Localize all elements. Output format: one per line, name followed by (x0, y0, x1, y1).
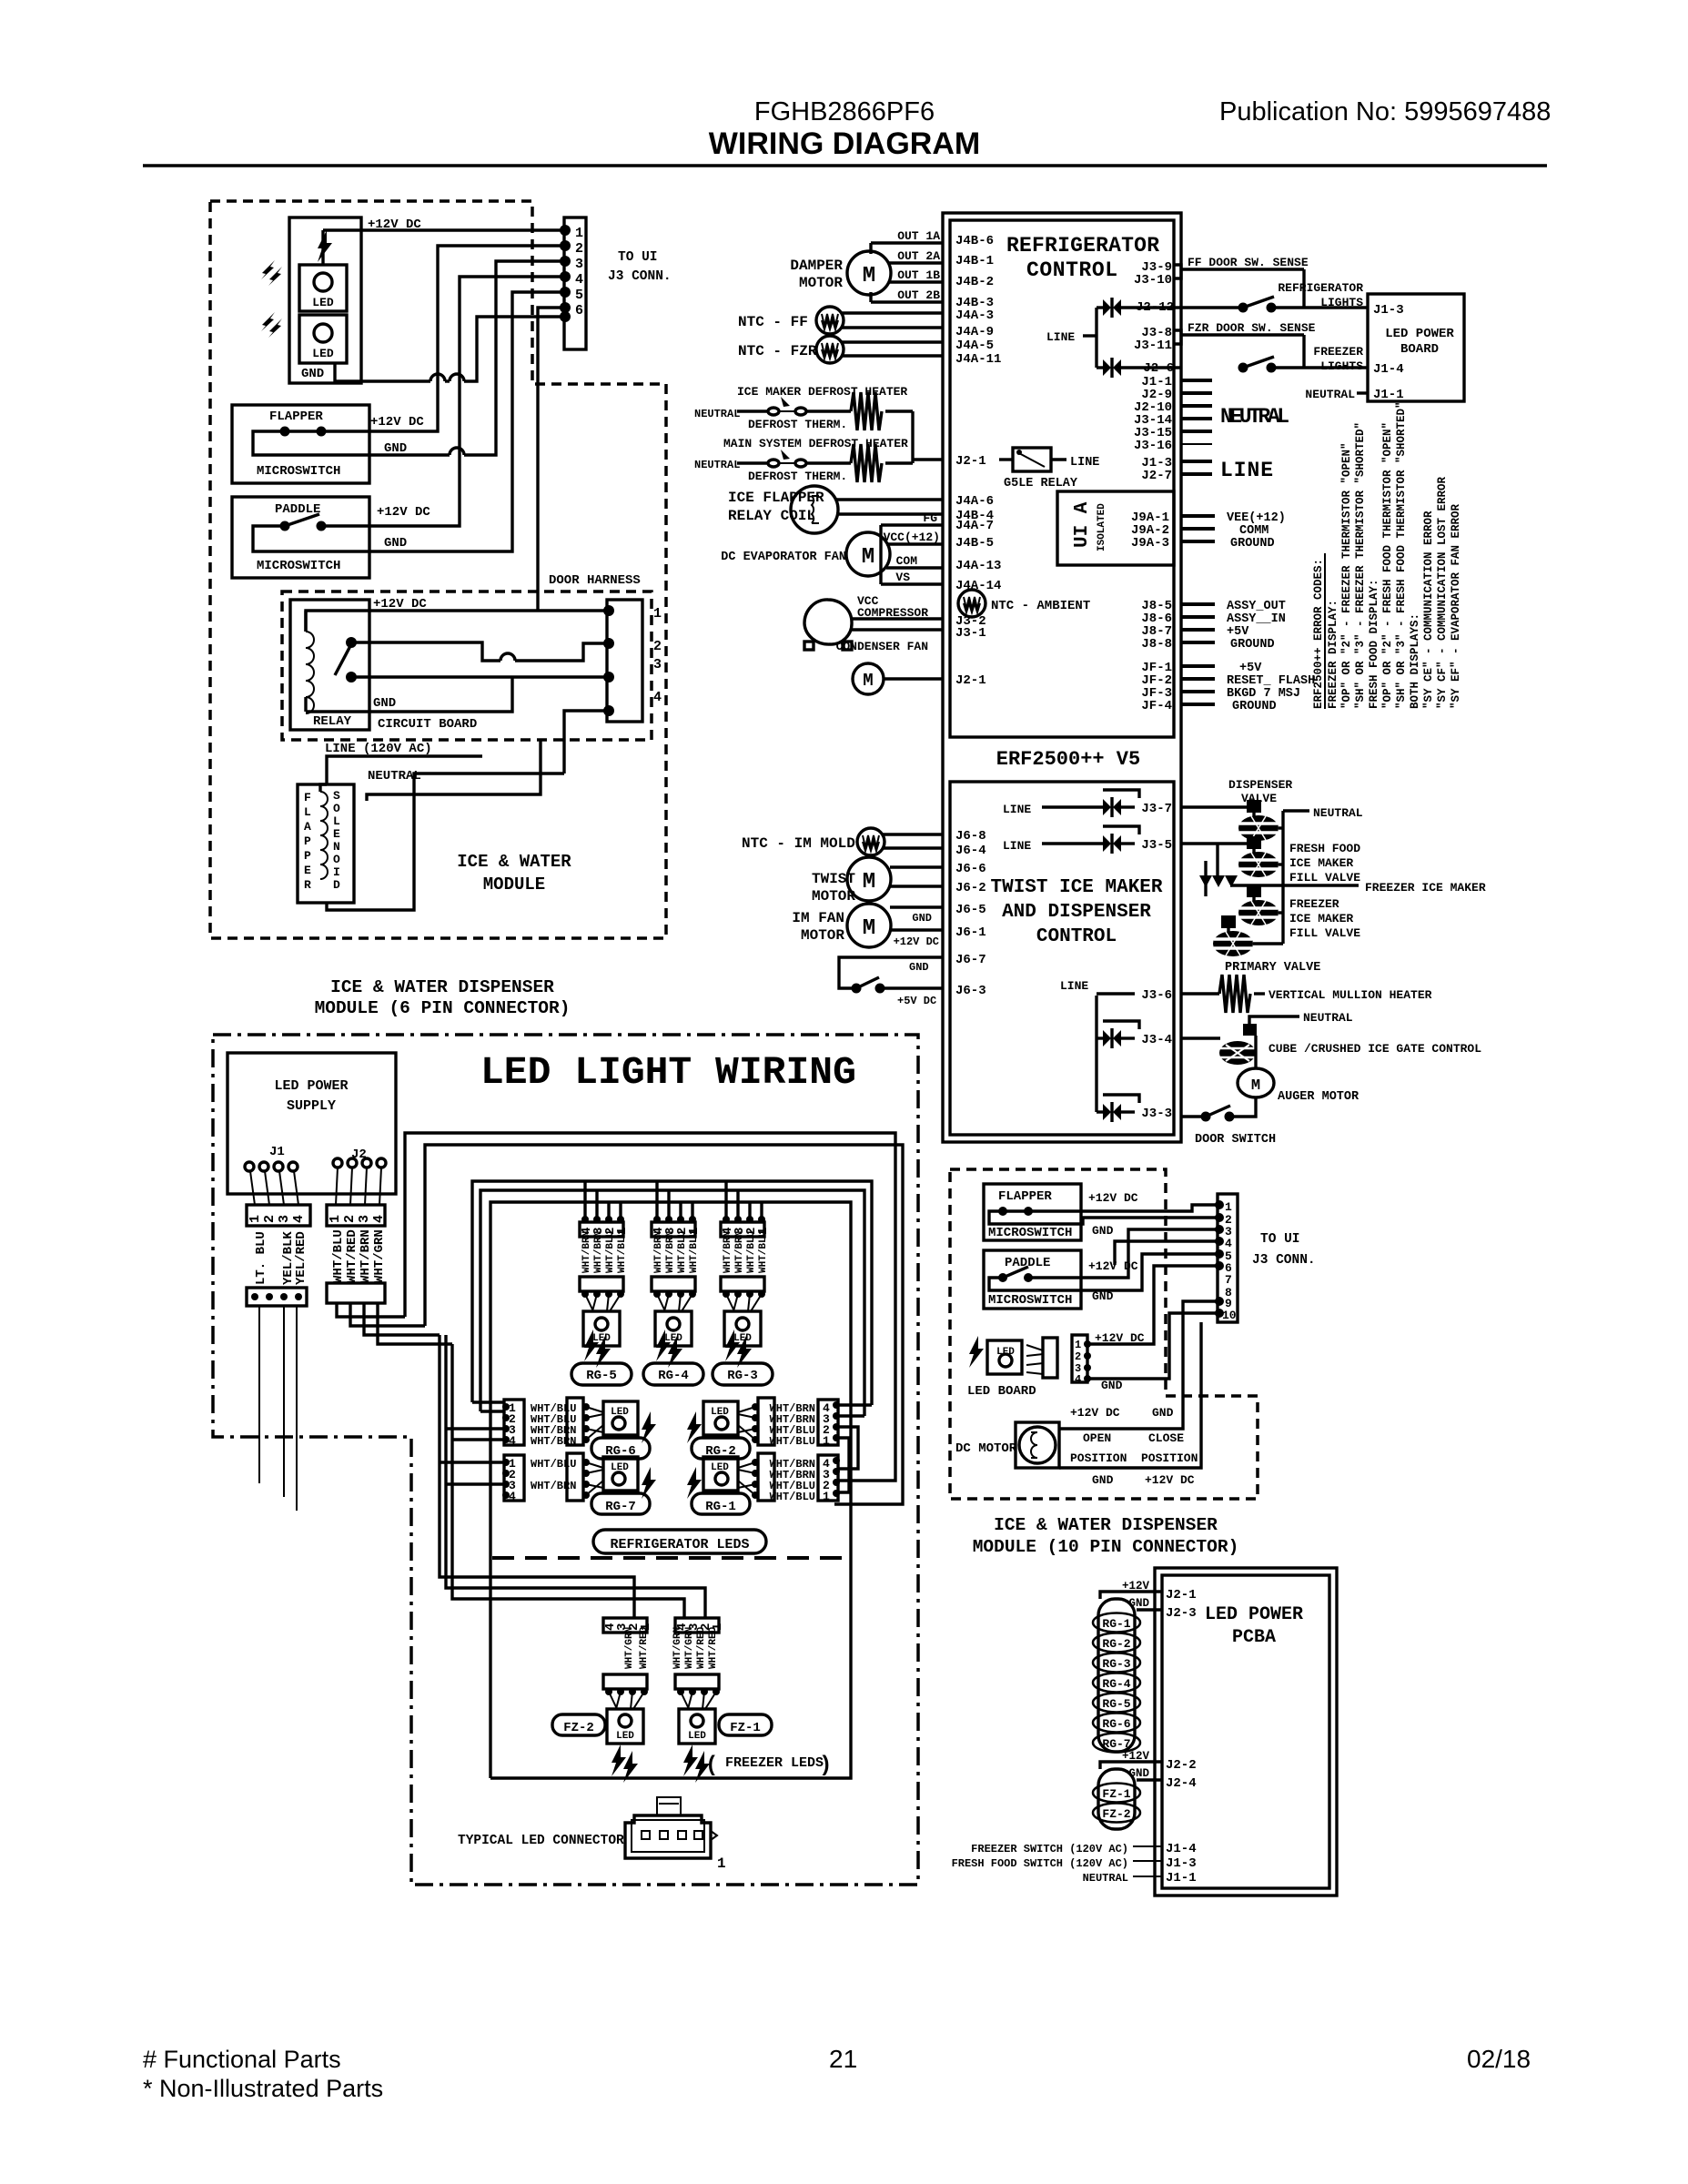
NTC ambient thermistor (958, 590, 986, 617)
flapper microswitch box (232, 405, 369, 483)
RG-7 connector (504, 1455, 524, 1501)
svg-text:J6-5: J6-5 (955, 903, 986, 917)
RG-5 LED assembly (571, 1182, 632, 1385)
svg-text:3: 3 (575, 257, 583, 272)
svg-text:DOOR SWITCH: DOOR SWITCH (1195, 1133, 1276, 1147)
svg-text:VEE(+12): VEE(+12) (1227, 511, 1286, 525)
wire LED GND to pin 7 (335, 363, 430, 381)
svg-text:CIRCUIT BOARD: CIRCUIT BOARD (378, 717, 477, 732)
svg-text:CONDENSER FAN: CONDENSER FAN (836, 640, 928, 653)
svg-text:RG-7: RG-7 (605, 1500, 636, 1514)
svg-text:J6-7: J6-7 (955, 953, 986, 967)
svg-text:CONTROL: CONTROL (1036, 926, 1117, 947)
svg-text:DEFROST THERM.: DEFROST THERM. (748, 470, 847, 483)
svg-text:FRESH FOOD DISPLAY:: FRESH FOOD DISPLAY: (1368, 579, 1380, 709)
svg-text:GND: GND (1152, 1406, 1174, 1420)
svg-text:FF DOOR SW. SENSE: FF DOOR SW. SENSE (1188, 256, 1309, 269)
svg-text:AUGER MOTOR: AUGER MOTOR (1278, 1090, 1359, 1104)
door harness connector box (607, 600, 642, 722)
svg-text:DISPENSER: DISPENSER (1228, 778, 1292, 792)
valve neutral bus (1281, 811, 1284, 944)
svg-text:J3 CONN.: J3 CONN. (1252, 1253, 1316, 1268)
svg-text:REFRIGERATOR: REFRIGERATOR (1006, 234, 1159, 258)
svg-text:CONTROL: CONTROL (1026, 258, 1117, 282)
svg-text:2: 2 (1075, 1350, 1081, 1363)
ICE & WATER MODULE dashed enclosure (210, 201, 666, 938)
svg-text:02/18: 02/18 (1467, 2045, 1531, 2073)
svg-text:MODULE: MODULE (483, 875, 545, 895)
J1 header (247, 1205, 310, 1226)
wire relay common to door pin 3 (351, 675, 609, 678)
J2 bundle wires (337, 1303, 405, 1317)
RG-7 header (567, 1453, 583, 1501)
refrigerator LED wire loop A (472, 1181, 872, 1405)
svg-text:NEUTRAL: NEUTRAL (1305, 388, 1355, 401)
wire paddle to pin3 (1028, 1229, 1218, 1278)
svg-text:NEUTRAL: NEUTRAL (1313, 806, 1363, 820)
svg-text:WHT/RED: WHT/RED (708, 1626, 719, 1669)
TO UI J3 connector box (564, 217, 586, 349)
RG-1 connector (818, 1455, 838, 1501)
svg-text:FILL VALVE: FILL VALVE (1289, 926, 1360, 940)
damper motor M (847, 251, 891, 295)
svg-text:WHT/RED: WHT/RED (696, 1626, 707, 1669)
svg-text:NTC - AMBIENT: NTC - AMBIENT (991, 599, 1090, 613)
RG oval stack bracket (1098, 1599, 1135, 1752)
solenoid terminals (320, 784, 327, 792)
svg-text:WHT/BLU: WHT/BLU (331, 1229, 346, 1283)
JF stub wires (1181, 664, 1215, 668)
condenser fan motor (853, 663, 884, 694)
svg-text:MAIN SYSTEM DEFROST HEATER: MAIN SYSTEM DEFROST HEATER (723, 437, 908, 450)
J1 lower connector (247, 1288, 307, 1306)
wires RG-2 pins to loops (838, 1403, 872, 1406)
svg-text:RG-1: RG-1 (705, 1500, 736, 1514)
wire pin9 down (1059, 1301, 1218, 1429)
door harness dashed box (282, 591, 652, 740)
wire flapper +12V to pin 2 (321, 246, 565, 431)
svg-text:(: ( (705, 1754, 718, 1778)
svg-text:21: 21 (829, 2045, 857, 2073)
svg-text:ICE & WATER DISPENSER: ICE & WATER DISPENSER (330, 977, 554, 997)
J1 dangling wires (258, 1306, 260, 1483)
svg-text:I: I (333, 865, 340, 879)
svg-text:JF-4: JF-4 (1141, 699, 1172, 713)
door connector pins (603, 605, 614, 616)
svg-text:OUT 2A: OUT 2A (897, 249, 940, 263)
RG-2 oval label (692, 1438, 750, 1459)
refrigerator/freezer LED wire loop C (490, 1202, 851, 1778)
svg-text:R: R (304, 878, 311, 892)
svg-text:+12V DC: +12V DC (1070, 1406, 1120, 1420)
wire flapper to pin1 (1030, 1205, 1218, 1211)
svg-text:4: 4 (371, 1215, 387, 1223)
FZ-2 LED assembly (603, 1618, 653, 1783)
svg-text:J3-4: J3-4 (1141, 1033, 1172, 1047)
refrigerator control outer box (943, 213, 1181, 1142)
wire LED +12V to pin 1 (323, 228, 565, 231)
FZR door switch (1238, 363, 1248, 373)
svg-text:J3-10: J3-10 (1134, 273, 1172, 288)
ice maker defrost heater coil (806, 409, 851, 412)
typical LED connector drawing (625, 1815, 711, 1858)
svg-text:J2-1: J2-1 (955, 673, 986, 688)
svg-text:LINE: LINE (1060, 979, 1088, 993)
svg-text:+12V DC: +12V DC (894, 935, 939, 948)
svg-text:4: 4 (1225, 1237, 1232, 1250)
ice flapper relay coil symbol (791, 486, 838, 533)
10-pin dispenser module dashed enclosure (950, 1169, 1258, 1499)
svg-text:"SH" OR "3" - FREEZER THERMIST: "SH" OR "3" - FREEZER THERMISTOR "SHORTE… (1354, 422, 1367, 709)
svg-text:WHT/BLU: WHT/BLU (531, 1458, 576, 1471)
LED1 box (299, 265, 347, 311)
svg-text:FLAPPER: FLAPPER (269, 409, 323, 424)
svg-text:REFRIGERATOR: REFRIGERATOR (1278, 281, 1363, 295)
cube crushed ice gate solenoid (1181, 1036, 1220, 1039)
svg-text:LINE: LINE (1003, 803, 1031, 816)
RG-2 LED box (703, 1401, 738, 1435)
svg-text:J4A-6: J4A-6 (955, 494, 994, 509)
freezer fill valve feed (1216, 844, 1218, 875)
svg-text:1: 1 (653, 606, 662, 622)
LED anode bolt (321, 230, 324, 265)
svg-text:DC MOTOR: DC MOTOR (955, 1441, 1017, 1456)
flapper microswitch box (10 pin) (984, 1184, 1081, 1240)
svg-text:4: 4 (509, 1490, 516, 1503)
svg-text:A: A (304, 820, 311, 834)
svg-text:LT. BLU: LT. BLU (254, 1231, 268, 1285)
svg-text:1: 1 (248, 1215, 263, 1223)
svg-text:1: 1 (717, 1855, 726, 1872)
svg-text:FREEZER DISPLAY:: FREEZER DISPLAY: (1327, 600, 1339, 709)
svg-text:LINE: LINE (1003, 839, 1031, 853)
svg-text:ICE & WATER: ICE & WATER (457, 852, 571, 872)
svg-text:J4B-2: J4B-2 (955, 275, 994, 289)
svg-text:FREEZER SWITCH (120V AC): FREEZER SWITCH (120V AC) (971, 1843, 1128, 1855)
J1 pins (245, 1162, 254, 1171)
FREEZER ICE MAKER label and wire (1230, 884, 1359, 886)
svg-text:J3 CONN.: J3 CONN. (608, 269, 672, 284)
damper motor wires OUT 1A/2A/1B/2B (869, 243, 872, 254)
RG-6 connector (504, 1400, 524, 1445)
svg-text:RG-4: RG-4 (1102, 1677, 1130, 1691)
svg-text:# Functional Parts: # Functional Parts (143, 2046, 341, 2073)
svg-text:1: 1 (1225, 1200, 1232, 1214)
svg-text:WHT/BRN: WHT/BRN (531, 1480, 576, 1492)
paddle switch contacts (280, 521, 290, 531)
svg-text:OUT 1B: OUT 1B (897, 268, 940, 282)
neutral stub wires (1181, 379, 1212, 382)
wire neutral to solenoid (414, 773, 564, 784)
svg-text:J3-7: J3-7 (1141, 802, 1172, 816)
svg-text:WHT/RED: WHT/RED (345, 1229, 359, 1283)
svg-text:J4A-7: J4A-7 (955, 519, 994, 533)
svg-text:NEUTRAL: NEUTRAL (1083, 1872, 1128, 1885)
svg-text:J6-8: J6-8 (955, 829, 986, 844)
svg-text:2: 2 (575, 241, 583, 257)
svg-text:RELAY COIL: RELAY COIL (728, 508, 815, 524)
svg-text:ASSY_OUT: ASSY_OUT (1227, 600, 1286, 613)
svg-text:LED: LED (312, 296, 334, 309)
dc motor wires (1059, 1322, 1201, 1468)
svg-text:J4A-9: J4A-9 (955, 325, 994, 339)
svg-text:3: 3 (653, 657, 662, 672)
svg-text:J1-3: J1-3 (1373, 303, 1404, 318)
svg-text:J2-3: J2-3 (1166, 1606, 1197, 1621)
svg-text:ERF2500++ V5: ERF2500++ V5 (996, 748, 1140, 771)
svg-text:): ) (819, 1754, 832, 1778)
svg-text:FZ-2: FZ-2 (1102, 1807, 1130, 1821)
wire line to solenoid (327, 756, 482, 784)
svg-text:ASSY__IN: ASSY__IN (1227, 612, 1286, 626)
svg-text:LINE (120V AC): LINE (120V AC) (325, 742, 432, 756)
svg-text:J2-4: J2-4 (1166, 1776, 1197, 1791)
svg-text:J9A-3: J9A-3 (1131, 536, 1169, 551)
wire door pin 4 down to line circuit (564, 711, 609, 773)
door switch (auger) (1181, 1115, 1203, 1117)
svg-text:NEUTRAL: NEUTRAL (694, 408, 740, 420)
svg-text:COM: COM (896, 554, 918, 568)
svg-text:RG-5: RG-5 (586, 1369, 617, 1383)
svg-text:J4B-1: J4B-1 (955, 254, 994, 268)
svg-text:TWIST ICE MAKER: TWIST ICE MAKER (990, 877, 1162, 898)
svg-text:LED BOARD: LED BOARD (967, 1384, 1036, 1399)
svg-text:WHT/GRN: WHT/GRN (372, 1229, 387, 1283)
RG-1..RG-7 ovals (1093, 1613, 1140, 1753)
svg-text:J4B-6: J4B-6 (955, 234, 994, 248)
svg-text:NEUTRAL: NEUTRAL (1303, 1011, 1353, 1025)
GND +5V loop and switch (839, 957, 943, 988)
svg-text:WIRING DIAGRAM: WIRING DIAGRAM (709, 126, 980, 161)
error codes rotated block (1312, 401, 1462, 709)
svg-text:COMM: COMM (1239, 524, 1269, 538)
twist ice maker control inner box (950, 782, 1174, 1135)
svg-text:GND: GND (1092, 1224, 1114, 1238)
svg-text:+12V DC: +12V DC (370, 415, 424, 430)
svg-text:3: 3 (277, 1215, 292, 1223)
flapper solenoid box (298, 784, 354, 903)
svg-text:J1: J1 (269, 1145, 285, 1159)
wires relay coil to J4A-6 J4B-4 (836, 498, 943, 500)
wires RG-6/RG-7 pins to bundle (472, 1400, 504, 1403)
svg-text:4: 4 (575, 272, 583, 288)
svg-text:LED: LED (611, 1407, 629, 1418)
svg-text:+12V DC: +12V DC (1145, 1473, 1195, 1487)
RG-7 LED box (603, 1457, 638, 1491)
refrigerator control inner box (950, 220, 1174, 737)
freezer feed wire 3 (452, 1344, 684, 1618)
svg-text:ICE & WATER DISPENSER: ICE & WATER DISPENSER (994, 1515, 1218, 1535)
relay coil (306, 632, 314, 713)
svg-text:P: P (304, 849, 311, 863)
wire relay +12V to door pin 1 (306, 611, 609, 632)
svg-text:LED: LED (996, 1347, 1015, 1358)
error codes underline (1324, 553, 1326, 709)
svg-text:REFRIGERATOR LEDS: REFRIGERATOR LEDS (610, 1537, 749, 1552)
G5LE relay (1013, 448, 1051, 471)
svg-text:N: N (333, 840, 340, 854)
RG-2 header (758, 1398, 774, 1445)
svg-text:J6-3: J6-3 (955, 984, 986, 998)
svg-text:LED POWER: LED POWER (1385, 327, 1454, 341)
svg-text:DOOR HARNESS: DOOR HARNESS (549, 573, 641, 588)
svg-text:VERTICAL MULLION HEATER: VERTICAL MULLION HEATER (1269, 988, 1432, 1002)
svg-text:DAMPER: DAMPER (790, 258, 843, 274)
RG-1 LED box (703, 1457, 738, 1491)
svg-text:CUBE /CRUSHED ICE GATE CONTROL: CUBE /CRUSHED ICE GATE CONTROL (1269, 1042, 1481, 1056)
svg-text:4: 4 (1075, 1373, 1081, 1386)
svg-text:GND: GND (909, 961, 929, 974)
svg-text:LED POWER: LED POWER (274, 1078, 348, 1094)
svg-text:OPEN: OPEN (1083, 1431, 1111, 1445)
svg-text:+5V: +5V (1239, 662, 1262, 675)
svg-text:"SY CF" - COMMUNICATION LOST E: "SY CF" - COMMUNICATION LOST ERROR (1436, 476, 1449, 709)
LED POWER BOARD box (1368, 294, 1464, 401)
DC evaporator fan motor (846, 532, 890, 576)
svg-text:RG-3: RG-3 (1102, 1657, 1130, 1671)
svg-text:FGHB2866PF6: FGHB2866PF6 (754, 97, 935, 126)
svg-text:FREEZER ICE MAKER: FREEZER ICE MAKER (1365, 881, 1486, 895)
svg-text:GROUND: GROUND (1230, 537, 1275, 551)
RG-1 oval label (692, 1493, 750, 1514)
svg-text:RG-2: RG-2 (1102, 1637, 1130, 1651)
svg-text:WHT/BRN: WHT/BRN (359, 1229, 373, 1283)
dispenser LED module box (289, 217, 361, 383)
svg-text:MICROSWITCH: MICROSWITCH (257, 559, 340, 573)
svg-text:RELAY: RELAY (313, 714, 352, 729)
svg-text:+5V: +5V (1227, 625, 1249, 639)
svg-text:1: 1 (575, 226, 583, 241)
svg-text:10: 10 (1222, 1309, 1237, 1322)
svg-text:J3-1: J3-1 (955, 626, 986, 641)
RG-2 connector (818, 1400, 838, 1445)
refrigerator LED wire loop B (480, 1190, 864, 1416)
svg-text:WHT/GRN: WHT/GRN (684, 1627, 695, 1669)
svg-text:WHT/RED: WHT/RED (639, 1626, 650, 1669)
svg-text:"OP" OR "2" - FREEZER THERMIST: "OP" OR "2" - FREEZER THERMISTOR "OPEN" (1340, 442, 1353, 709)
wire ledboard pin4 gnd (1087, 1313, 1218, 1379)
svg-text:MODULE (6 PIN CONNECTOR): MODULE (6 PIN CONNECTOR) (315, 998, 571, 1018)
J9A stub wires (1181, 514, 1215, 518)
svg-text:J4B-5: J4B-5 (955, 536, 994, 551)
svg-text:L: L (333, 814, 340, 828)
svg-text:FILL VALVE: FILL VALVE (1289, 871, 1360, 885)
svg-text:* Non-Illustrated Parts: * Non-Illustrated Parts (143, 2075, 383, 2102)
wire pin6 (1087, 1266, 1218, 1344)
wire relay GND (306, 677, 512, 712)
svg-text:PCBA: PCBA (1232, 1627, 1276, 1648)
svg-text:GND: GND (384, 536, 407, 551)
svg-text:LINE: LINE (1046, 330, 1075, 344)
svg-text:L: L (304, 805, 311, 819)
svg-text:FZ-2: FZ-2 (563, 1721, 594, 1735)
svg-text:J3-11: J3-11 (1134, 339, 1172, 353)
vertical mullion heater (1181, 992, 1219, 995)
svg-text:FLAPPER: FLAPPER (998, 1189, 1052, 1204)
RG-1 header (758, 1453, 774, 1501)
svg-text:NTC - FZR: NTC - FZR (738, 343, 817, 359)
svg-text:J2-7: J2-7 (1141, 469, 1172, 483)
wire flapper GND to pin 3 (253, 431, 450, 455)
svg-text:4: 4 (291, 1215, 307, 1223)
svg-text:FREEZER: FREEZER (1313, 345, 1363, 359)
svg-text:J6-6: J6-6 (955, 862, 986, 876)
svg-text:OUT 1A: OUT 1A (897, 229, 940, 243)
svg-text:WHT/GRN: WHT/GRN (672, 1627, 683, 1669)
RG-7 oval label (591, 1493, 650, 1514)
svg-text:RG-4: RG-4 (658, 1369, 689, 1383)
svg-text:J3-6: J3-6 (1141, 988, 1172, 1003)
svg-text:FREEZER: FREEZER (1289, 897, 1339, 911)
FZ-1 FZ-2 ovals (1093, 1784, 1140, 1823)
fresh food fill valve (1181, 842, 1248, 844)
svg-text:"SY CE" - COMMUNICATION ERROR: "SY CE" - COMMUNICATION ERROR (1422, 511, 1435, 709)
wire pin4 (1115, 1241, 1218, 1265)
svg-text:FREEZER LEDS: FREEZER LEDS (725, 1755, 824, 1771)
svg-text:ISOLATED: ISOLATED (1097, 503, 1107, 551)
svg-text:WHT/BLU: WHT/BLU (770, 1491, 815, 1503)
LED board 4-pin connector (1072, 1335, 1087, 1382)
svg-text:J4A-5: J4A-5 (955, 339, 994, 353)
svg-text:GROUND: GROUND (1232, 700, 1277, 713)
svg-text:TO UI: TO UI (1260, 1232, 1300, 1247)
svg-text:G5LE RELAY: G5LE RELAY (1004, 477, 1078, 490)
solenoid coil (320, 792, 328, 879)
svg-text:J2-2: J2-2 (1166, 1758, 1197, 1773)
10 pin connector box (1218, 1194, 1238, 1322)
svg-text:LED: LED (611, 1462, 629, 1473)
UI A isolated box (1057, 491, 1174, 565)
wire pin 6 to door harness (538, 308, 565, 611)
svg-text:NEUTRAL: NEUTRAL (694, 459, 740, 471)
RG-4 LED assembly (643, 1182, 703, 1385)
DC MOTOR box (1016, 1422, 1059, 1468)
svg-text:LINE: LINE (1070, 456, 1099, 470)
svg-text:S: S (333, 789, 340, 803)
svg-text:SUPPLY: SUPPLY (287, 1098, 336, 1114)
dispenser valve (1181, 805, 1248, 808)
svg-text:J2-1: J2-1 (1166, 1588, 1197, 1603)
svg-text:GND: GND (373, 696, 396, 711)
RG-6 oval label (591, 1438, 650, 1459)
svg-text:Publication No: 5995697488: Publication No: 5995697488 (1219, 97, 1551, 126)
svg-text:UI A: UI A (1072, 501, 1093, 548)
freezer feed wire 2 (446, 1335, 705, 1618)
LED POWER SUPPLY box (227, 1053, 396, 1194)
svg-text:BOTH DISPLAYS:: BOTH DISPLAYS: (1409, 613, 1421, 709)
svg-text:FRESH FOOD: FRESH FOOD (1289, 842, 1360, 855)
svg-text:LED POWER: LED POWER (1205, 1604, 1303, 1625)
LED POWER PCBA inner box (1162, 1575, 1329, 1888)
svg-text:POSITION: POSITION (1070, 1451, 1127, 1465)
long wire to RG-1 pin1 (425, 1145, 903, 1504)
svg-text:J1-3: J1-3 (1166, 1856, 1197, 1871)
svg-text:4: 4 (653, 690, 662, 705)
svg-text:J4A-11: J4A-11 (955, 352, 1001, 367)
LED BOARD connector bracket (1026, 1345, 1043, 1374)
J2 header (327, 1205, 385, 1226)
svg-text:FZR DOOR SW. SENSE: FZR DOOR SW. SENSE (1188, 321, 1316, 335)
svg-text:FZ-1: FZ-1 (730, 1721, 761, 1735)
svg-text:WHT/GRN: WHT/GRN (624, 1627, 635, 1669)
svg-text:2: 2 (262, 1215, 278, 1223)
FZ-1 LED assembly (675, 1618, 725, 1783)
compressor symbol (804, 600, 852, 644)
svg-text:+12V DC: +12V DC (1095, 1331, 1145, 1345)
svg-text:O: O (333, 802, 340, 815)
svg-text:O: O (333, 853, 340, 866)
RG-3 LED assembly (713, 1182, 773, 1385)
